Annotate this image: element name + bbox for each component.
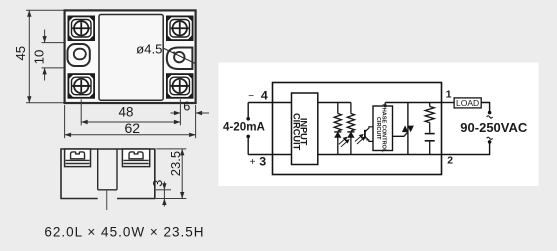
wire: load to AC source top <box>481 103 489 112</box>
resistor R1 (branch 1) <box>334 103 341 132</box>
svg-text:3: 3 <box>259 154 266 168</box>
dim 45 extension lines <box>26 9 64 11</box>
side view body fill <box>61 149 155 199</box>
svg-text:2: 2 <box>447 155 453 166</box>
svg-text:90-250VAC: 90-250VAC <box>460 120 528 135</box>
side view internal verticals <box>97 149 99 190</box>
LOAD box <box>454 98 481 108</box>
wire: terminal 1 to load <box>442 102 455 104</box>
AC source tilde bottom <box>487 137 493 139</box>
gate wire <box>393 132 408 137</box>
dim 45 line <box>28 10 30 103</box>
svg-text:62.0L × 45.0W × 23.5H: 62.0L × 45.0W × 23.5H <box>44 225 204 240</box>
central cover plate <box>99 15 163 101</box>
terminal dot input bottom <box>246 135 250 139</box>
terminal block right (side view) <box>122 149 149 167</box>
wire: 4-20mA source vertical top <box>247 103 249 118</box>
svg-text:1: 1 <box>446 90 452 101</box>
wire: input 4 (top left) <box>248 102 291 104</box>
dimension arrows (side view) <box>162 149 184 205</box>
collector <box>365 127 373 132</box>
resistor R2 (branch 2) <box>347 103 354 132</box>
dim 3 extension lines <box>156 189 171 191</box>
svg-text:−: − <box>248 91 254 102</box>
snubber capacitor C1 <box>425 134 435 155</box>
phase control circuit block U2 <box>373 104 393 153</box>
svg-text:48: 48 <box>119 105 134 120</box>
svg-text:LOAD: LOAD <box>456 98 479 108</box>
screw terminal pad bottom-left <box>68 74 94 98</box>
svg-text:+: + <box>250 157 256 168</box>
svg-text:4-20mA: 4-20mA <box>223 121 266 134</box>
snubber resistor R3 <box>425 103 434 133</box>
white panel background <box>219 63 539 186</box>
side view body outline <box>61 149 155 199</box>
mounting hole o4.5 <box>174 52 184 62</box>
bottom notch line <box>98 189 117 191</box>
svg-text:CIRCUIT: CIRCUIT <box>375 117 381 140</box>
svg-text:45: 45 <box>13 46 28 61</box>
input circuit block U1 <box>292 93 318 165</box>
screw terminal pad top-right <box>167 16 193 40</box>
leader line for o4.5 <box>164 48 196 64</box>
terminal block left (side view) <box>65 149 91 167</box>
phototransistor Q1 <box>365 127 373 142</box>
mounting tab with hole (right) <box>136 42 196 69</box>
svg-text:4: 4 <box>261 88 268 102</box>
dim 23.5 line <box>181 149 183 199</box>
coupling arrows to phototransistor <box>355 135 365 145</box>
LED D1 (branch 1) <box>334 132 349 155</box>
screw terminal pad bottom-right <box>167 74 193 98</box>
triac T1 <box>393 103 414 155</box>
dim 48 extension lines <box>80 99 82 125</box>
svg-text:ø4.5: ø4.5 <box>136 42 162 57</box>
wire: 4-20mA source vertical bottom <box>247 138 249 155</box>
wire: output top rail <box>385 102 441 104</box>
screw terminal pad top-left <box>68 16 94 40</box>
wire: inner top rail (input box to branches) <box>318 102 351 104</box>
svg-text:62: 62 <box>125 120 141 136</box>
dim 3 line <box>163 182 165 207</box>
opto LED D2 (branch 2) <box>347 132 365 155</box>
dim 62 line <box>65 134 196 136</box>
wire: stub to phase control box <box>384 103 386 107</box>
svg-text:10: 10 <box>32 50 47 65</box>
dim 6 line <box>171 112 181 114</box>
emission arrows D1 <box>339 137 349 147</box>
center pin line <box>106 190 108 210</box>
dim 10 extension lines <box>42 42 64 44</box>
svg-text:23.5: 23.5 <box>168 151 183 176</box>
AC source tilde top <box>487 116 493 118</box>
SSR body outline (top view) <box>65 10 196 103</box>
dim 48 line <box>81 121 180 123</box>
terminal dot AC top <box>488 111 492 115</box>
LED window slot (left) <box>68 44 90 66</box>
wire: input 3 (bottom left) <box>248 154 291 156</box>
dim 62 extension lines <box>64 105 66 138</box>
svg-text:3: 3 <box>151 180 165 187</box>
dimension arrows (top view) <box>27 10 202 137</box>
wire: inner bottom rail <box>318 154 442 156</box>
dim 23.5 extension lines <box>156 148 186 150</box>
SSR enclosure box <box>273 83 442 175</box>
wire: AC source bottom to terminal 2 <box>442 143 490 154</box>
terminal dot AC bottom <box>488 140 492 144</box>
svg-text:6: 6 <box>183 99 190 113</box>
terminal dot input top <box>246 117 250 121</box>
svg-text:CIRCUIT: CIRCUIT <box>292 113 302 151</box>
emitter <box>365 137 373 142</box>
dim 10 line <box>44 30 46 43</box>
